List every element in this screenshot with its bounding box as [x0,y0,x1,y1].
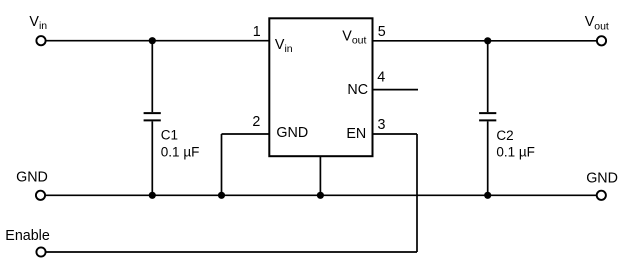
svg-text:4: 4 [377,70,385,86]
svg-text:NC: NC [347,82,368,98]
svg-text:3: 3 [378,117,386,133]
svg-text:EN: EN [346,126,366,142]
svg-text:2: 2 [252,114,260,130]
svg-text:Enable: Enable [5,228,50,244]
svg-text:C2: C2 [496,128,513,143]
svg-text:GND: GND [16,170,48,186]
svg-text:0.1 µF: 0.1 µF [161,145,200,160]
svg-text:C1: C1 [161,128,178,143]
svg-text:0.1 µF: 0.1 µF [496,145,535,160]
svg-text:GND: GND [276,125,308,141]
svg-text:1: 1 [253,24,261,40]
svg-text:5: 5 [378,24,386,40]
svg-text:GND: GND [586,170,618,186]
